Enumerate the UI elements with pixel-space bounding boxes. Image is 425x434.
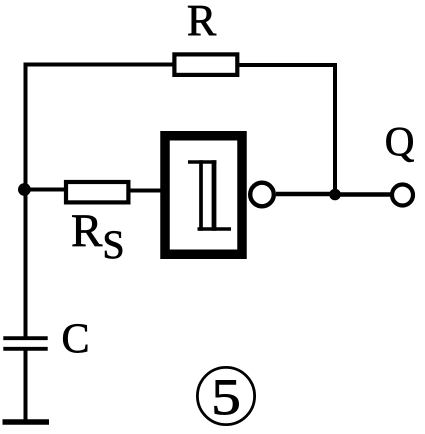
node A junction dot [18,183,31,196]
inverter output bubble [250,183,274,207]
wire top horizontal right segment [239,63,337,67]
wire resistor RS to schmitt trigger input [129,189,163,193]
resistor RS [66,182,128,202]
schmitt trigger U1 box [165,136,242,255]
svg-text:R: R [187,0,217,45]
svg-text:Q: Q [385,118,415,164]
terminal Q open circle [392,185,413,206]
schmitt trigger hysteresis symbol right vertical [212,160,217,231]
capacitor C bottom plate [3,347,47,351]
svg-text:5: 5 [211,369,241,425]
wire output node to terminal Q [335,192,391,196]
wire node A down to capacitor [24,190,28,339]
capacitor C top plate [3,336,47,340]
wire top horizontal left segment [24,63,175,67]
wire left vertical from top to node A [24,63,28,192]
resistor R [174,54,237,75]
wire node A to resistor RS [24,188,66,192]
wire right vertical down to output node [333,63,337,196]
figure number circle 5 [197,367,254,424]
wire bubble to output node [276,192,336,196]
output node junction dot [329,189,341,201]
schmitt trigger hysteresis symbol top bar [188,160,216,164]
svg-text:C: C [61,317,89,363]
wire capacitor to ground [24,349,28,422]
ground [3,419,50,425]
schmitt trigger hysteresis symbol left vertical [199,160,203,231]
schmitt trigger hysteresis symbol bottom bar [198,227,232,231]
